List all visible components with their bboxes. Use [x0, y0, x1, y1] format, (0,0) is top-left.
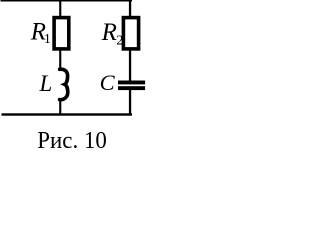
wire: left branch top segment: [59, 1, 61, 17]
wire: right branch middle segment: [129, 50, 131, 81]
svg-text:Рис. 10: Рис. 10: [37, 127, 107, 154]
wire: right branch bottom segment: [129, 90, 131, 114]
capacitor C plate 2: [118, 86, 145, 90]
wire: left branch middle segment: [59, 50, 61, 70]
svg-text:L: L: [39, 71, 53, 96]
svg-text:1: 1: [44, 32, 51, 47]
resistor R2: [123, 18, 138, 49]
svg-text:C: C: [100, 70, 116, 95]
svg-text:R: R: [101, 19, 117, 46]
resistor R1: [54, 18, 69, 49]
wire: top rail: [1, 0, 133, 2]
inductor L: [60, 69, 68, 99]
capacitor C plate 1: [118, 81, 145, 85]
wire: left branch bottom segment: [59, 99, 61, 115]
svg-text:2: 2: [116, 34, 123, 49]
wire: right branch top segment: [129, 1, 131, 17]
wire: bottom rail: [2, 113, 133, 115]
